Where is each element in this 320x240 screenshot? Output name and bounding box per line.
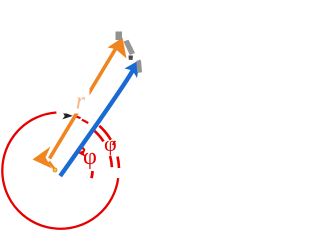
label box phi prime xyxy=(102,139,125,161)
dashed arc segment O1 (outer r59.5) xyxy=(99,126,111,140)
yellow center dot xyxy=(53,168,57,172)
orange barb streak toward center xyxy=(49,162,56,171)
dashed arc segment T1 xyxy=(74,116,81,118)
prime tick xyxy=(113,141,116,145)
small arc arrowhead red near blue vector xyxy=(78,150,86,157)
blue vector shaft xyxy=(60,69,133,176)
orange arrowhead bottom xyxy=(33,147,53,169)
orange arrowhead top xyxy=(108,38,127,59)
blue arrowhead xyxy=(125,60,141,79)
label box phi xyxy=(75,150,104,172)
dashed arc segment O2 (outer r59.5) xyxy=(118,157,120,168)
gray ghost streak right of blue tip xyxy=(136,60,142,73)
gray ghost patch above orange tip xyxy=(116,32,123,41)
small angle arc dash S1 xyxy=(82,147,85,150)
orange line r shaft xyxy=(50,47,118,159)
small angle arc dash S2 xyxy=(92,171,93,178)
svg-text:φ: φ xyxy=(83,144,97,170)
dashed arc segment T2 xyxy=(82,120,88,123)
svg-text:r: r xyxy=(76,88,86,114)
svg-text:φ: φ xyxy=(104,131,117,156)
label box r xyxy=(62,87,90,114)
big circle solid arc phi' (center 60.5,170.5 r 58.2) xyxy=(2,113,118,229)
dashed arc segment I2 (inner r52.5) xyxy=(110,156,112,167)
black arrowhead at top of circle xyxy=(62,112,73,120)
dashed arc segment I1 (inner r52.5) xyxy=(93,130,104,142)
dark patch above blue arrowhead xyxy=(129,56,134,61)
gray ghost band right of orange tip xyxy=(124,40,136,55)
